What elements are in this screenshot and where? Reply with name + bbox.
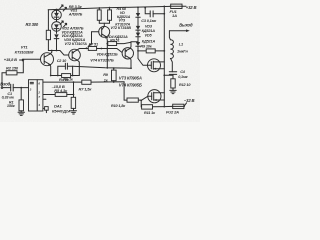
output tap wire <box>164 74 173 76</box>
resistor R9v vertical 1k <box>113 68 115 70</box>
top +32V rail <box>48 6 171 9</box>
bottom -32V rail <box>140 100 142 107</box>
resistor R7 horizontal <box>82 80 91 84</box>
node wire R3/LED/VT1c/VT2b <box>48 51 68 56</box>
vertical link W1-R5-R6v <box>73 82 75 97</box>
transistor VT2 <box>69 49 81 61</box>
wire VT1 emitter y=75.8 <box>51 75 62 77</box>
fuse FU1 <box>171 4 182 8</box>
resistor R9 (boxB) <box>106 43 109 45</box>
ground under R6v <box>71 111 77 114</box>
output terminal <box>169 30 187 32</box>
resistor R6v vertical <box>71 97 75 108</box>
capacitor C4 <box>169 71 176 73</box>
wire W1 from DA1 output <box>43 81 82 83</box>
lower gate network R10 <box>127 98 138 102</box>
right vertical drain line <box>163 6 165 106</box>
resistor R11 <box>142 105 153 109</box>
two resistors from rail <box>98 8 100 10</box>
resistor boxA <box>88 47 96 51</box>
LED VD2 <box>52 22 62 32</box>
resistor R12 <box>171 79 175 88</box>
ground under R1 <box>18 112 25 115</box>
LED VD2 arrows <box>60 21 63 25</box>
MOSFET VT5 upper <box>148 59 161 72</box>
VT1 base drop to R2 <box>17 59 23 73</box>
diode VD3 <box>54 34 59 38</box>
pin stub bottom-right with box <box>43 107 45 109</box>
paper noise overlay <box>0 0 1 1</box>
resistor R6 <box>62 74 71 78</box>
transistor VT3m circle <box>99 26 110 37</box>
LED VD1 arrows <box>60 5 63 9</box>
wire to VT4 base <box>117 49 122 53</box>
MOSFET VT6 lower <box>148 90 161 103</box>
fuse FU2 <box>173 104 184 108</box>
wire rail to +32V terminal <box>182 5 186 7</box>
LED VD1 <box>56 9 58 11</box>
resistor R5 <box>43 94 55 96</box>
pin stub right <box>43 98 46 100</box>
capacitor C3 <box>145 8 150 14</box>
ground under R12 <box>170 90 176 93</box>
inductor L1 <box>171 59 173 72</box>
resistor R1 <box>20 88 22 100</box>
capacitor C2 parallel loop <box>58 66 66 75</box>
capacitor C1 <box>10 84 12 91</box>
diode chain VD <box>137 7 139 9</box>
op-amp DA1 box <box>29 80 43 111</box>
wire W2 mid <box>73 66 130 68</box>
